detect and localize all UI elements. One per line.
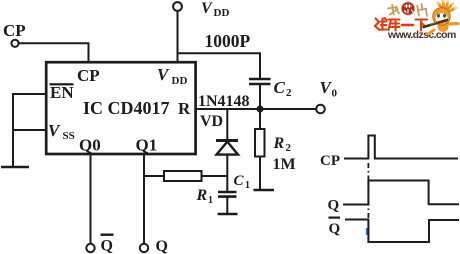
svg-text:1N4148: 1N4148 [198,93,250,110]
svg-text:DD: DD [172,75,188,87]
svg-text:C: C [234,173,245,189]
svg-text:V: V [48,121,61,140]
svg-text:Q: Q [329,221,341,237]
svg-text:DD: DD [214,7,230,19]
svg-text:1: 1 [245,180,250,191]
svg-text:VD: VD [200,113,223,130]
svg-text:R: R [196,187,208,204]
svg-text:Q: Q [328,198,340,214]
svg-text:EN: EN [50,83,74,102]
svg-text:2: 2 [286,142,292,154]
svg-text:CP: CP [3,21,26,40]
svg-text:V: V [201,0,213,17]
svg-text:IC CD4017: IC CD4017 [83,98,170,118]
svg-text:V: V [157,65,170,84]
svg-text:CP: CP [320,153,340,169]
svg-text:Q1: Q1 [136,136,158,155]
svg-text:Q: Q [156,238,168,254]
svg-text:1: 1 [208,195,213,206]
svg-text:Q: Q [101,238,113,254]
svg-text:1000P: 1000P [205,31,251,51]
svg-text:Q0: Q0 [79,136,101,155]
svg-text:0: 0 [332,88,338,100]
svg-text:R: R [178,99,191,118]
svg-text:2: 2 [286,87,292,99]
svg-text:SS: SS [63,130,75,142]
svg-text:1M: 1M [273,156,296,173]
svg-text:C: C [274,78,286,97]
svg-text:R: R [273,135,285,152]
svg-text:CP: CP [77,66,100,85]
